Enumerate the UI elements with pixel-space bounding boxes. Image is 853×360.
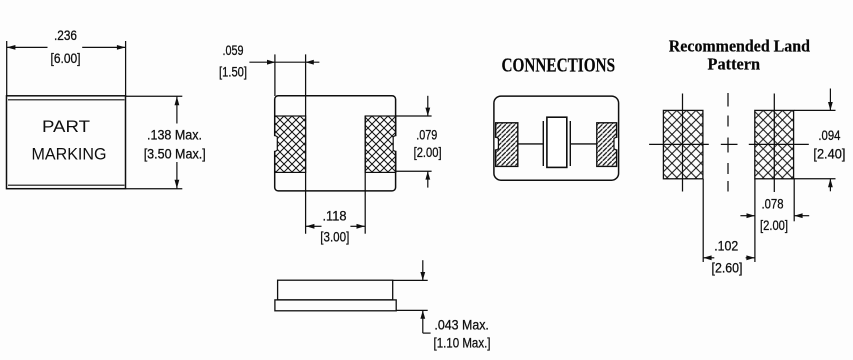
- connections right pad (hatched): [597, 123, 617, 167]
- dimension .078 [2.00] dim line with arrows: [740, 213, 809, 218]
- center dash-dot line: [721, 93, 738, 192]
- svg-text:.059: .059: [223, 42, 244, 58]
- land pattern right pad (crosshatched): [755, 110, 794, 178]
- dimension .236 [6.00] width, extension lines: [7, 41, 126, 96]
- svg-text:CONNECTIONS: CONNECTIONS: [502, 54, 616, 76]
- dimension .078 [2.00] extension lines: [703, 179, 794, 262]
- label PART MARKING: [32, 117, 107, 163]
- bottom view left pad castellation notch: [274, 135, 278, 152]
- right pad vertical centerline: [773, 94, 775, 193]
- dimension text .043 Max [1.10 Max.]: [434, 317, 491, 351]
- dimension .118 [3.00] dim line with arrows: [306, 224, 365, 229]
- svg-text:MARKING: MARKING: [32, 144, 107, 163]
- svg-text:PART: PART: [42, 117, 90, 136]
- svg-text:[1.50]: [1.50]: [219, 63, 247, 79]
- wire crystal to right pad: [570, 143, 597, 145]
- dimension .043 Max dim line with arrows: [420, 260, 430, 333]
- dimension text .079 [2.00]: [414, 127, 442, 160]
- dimension text .138 Max [3.50 Max.]: [144, 127, 206, 162]
- svg-text:.236: .236: [54, 27, 77, 43]
- crystal right plate: [569, 121, 571, 166]
- left pad vertical centerline: [682, 94, 684, 192]
- dimension .236 [6.00] dim line with arrows: [7, 45, 126, 50]
- dimension .094 [2.40] extension lines: [794, 110, 836, 178]
- connections left pad (hatched): [496, 123, 518, 167]
- dimension text .059 [1.50]: [219, 42, 247, 80]
- bottom view right terminal pad (crosshatched): [365, 116, 396, 172]
- svg-text:[1.10 Max.]: [1.10 Max.]: [434, 335, 491, 351]
- extension line pad inner edge (long vertical): [305, 54, 307, 233]
- dimension text .236 [6.00]: [51, 27, 81, 66]
- svg-text:.079: .079: [416, 127, 437, 143]
- dimension .043 Max extension lines: [393, 280, 428, 310]
- connections left pad notch: [495, 137, 499, 150]
- wire left pad to crystal: [518, 143, 544, 145]
- title Recommended Land Pattern: [669, 36, 811, 73]
- svg-text:.138 Max.: .138 Max.: [147, 127, 202, 143]
- dimension .138 Max height, extension lines: [126, 96, 182, 189]
- crystal element rectangle: [547, 117, 567, 167]
- svg-text:.094: .094: [818, 127, 840, 143]
- dimension .079 [2.00] dim line with arrows: [425, 96, 430, 188]
- svg-text:[6.00]: [6.00]: [51, 50, 81, 66]
- dimension text .102 [2.60]: [712, 238, 743, 276]
- svg-text:.078: .078: [762, 195, 784, 211]
- dimension .138 Max dim line with arrows: [175, 97, 180, 189]
- dimension .059 [1.50] dim line with arrows: [249, 60, 319, 65]
- crystal left plate: [542, 121, 544, 166]
- side view base: [275, 300, 396, 311]
- svg-text:[3.50 Max.]: [3.50 Max.]: [144, 145, 206, 161]
- dimension text .094 [2.40]: [813, 127, 845, 161]
- extension line package left edge (up): [274, 54, 276, 96]
- land pattern left pad (crosshatched): [663, 110, 703, 178]
- side view lid: [278, 280, 393, 300]
- dimension .094 [2.40] dim line with arrows: [828, 89, 833, 192]
- svg-text:.118: .118: [323, 207, 347, 223]
- bottom view right pad castellation notch: [393, 135, 397, 152]
- svg-text:Pattern: Pattern: [708, 54, 761, 73]
- dimension text .078 [2.00]: [760, 195, 788, 233]
- svg-text:[2.00]: [2.00]: [414, 144, 442, 160]
- svg-text:.102: .102: [714, 238, 738, 254]
- front view package outline: [7, 96, 126, 189]
- dimension .102 [2.60] dim line with arrows: [703, 255, 755, 260]
- connections right pad notch: [614, 137, 618, 150]
- svg-text:[2.60]: [2.60]: [712, 260, 743, 276]
- left pad horizontal centerline: [649, 143, 709, 145]
- svg-text:.043 Max.: .043 Max.: [434, 317, 489, 333]
- svg-text:[2.00]: [2.00]: [760, 217, 788, 233]
- dimension text .118 [3.00]: [320, 207, 349, 244]
- svg-text:[3.00]: [3.00]: [320, 228, 349, 244]
- connections body outline: [494, 96, 619, 180]
- dimension .079 [2.00] extension lines: [396, 116, 432, 171]
- bottom view left terminal pad (crosshatched): [275, 116, 306, 172]
- extension line right pad inner edge: [364, 116, 366, 234]
- right pad horizontal centerline: [749, 143, 809, 145]
- svg-text:Recommended Land: Recommended Land: [669, 36, 811, 55]
- bottom view package outline: [275, 96, 396, 191]
- svg-text:[2.40]: [2.40]: [813, 145, 845, 161]
